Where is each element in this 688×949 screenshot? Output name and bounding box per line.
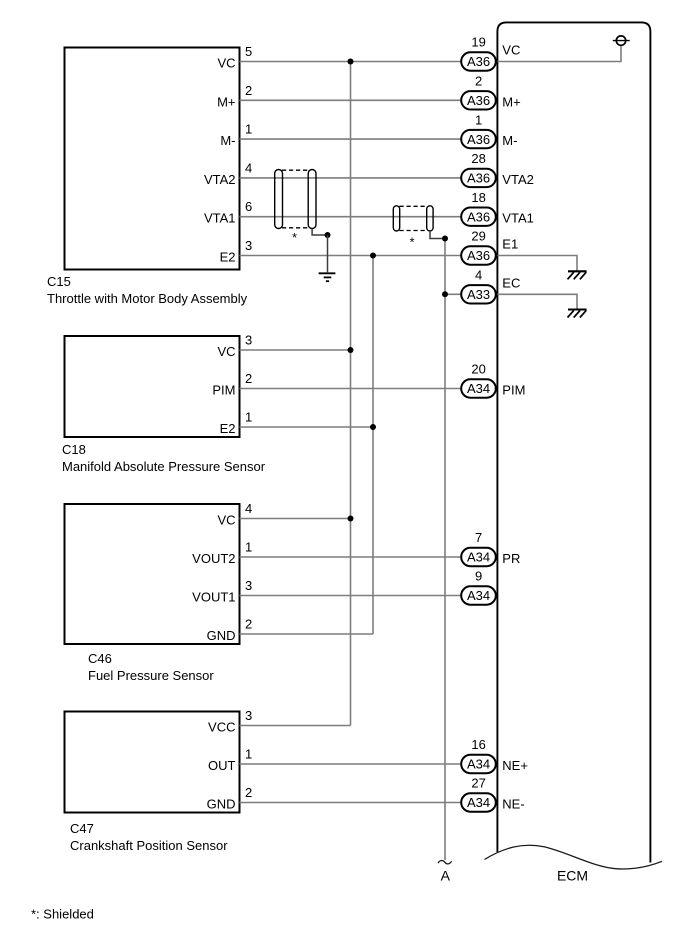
- svg-text:A34: A34: [467, 588, 490, 603]
- svg-text:A34: A34: [467, 550, 490, 565]
- svg-text:EC: EC: [502, 276, 520, 291]
- svg-text:2: 2: [475, 74, 482, 89]
- svg-text:VTA2: VTA2: [204, 172, 236, 187]
- wire break tilde (A net): [438, 861, 452, 864]
- wire VC vertical bus x=350.5: [350, 62, 352, 726]
- svg-text:NE-: NE-: [502, 797, 524, 812]
- svg-text:C18: C18: [62, 442, 86, 457]
- connector terminal A33 pin 4 (EC): [461, 285, 496, 303]
- svg-text:Manifold Absolute Pressure Sen: Manifold Absolute Pressure Sensor: [62, 459, 266, 474]
- shield (VTA1 single) dashed box: [393, 206, 433, 231]
- wire C15 VTA1 to ECM A36-18: [240, 216, 461, 218]
- wire E2/GND vertical bus x=373: [372, 256, 374, 635]
- svg-text:VTA1: VTA1: [502, 211, 534, 226]
- svg-text:2: 2: [245, 371, 252, 386]
- svg-text:5: 5: [245, 44, 252, 59]
- svg-text:A34: A34: [467, 381, 490, 396]
- svg-text:VTA1: VTA1: [204, 211, 236, 226]
- svg-text:VC: VC: [217, 56, 235, 71]
- connector terminal A34 pin 16 (NE+): [461, 755, 496, 773]
- connector terminal A34 pin 20 (PIM): [461, 379, 496, 397]
- svg-text:VTA2: VTA2: [502, 172, 534, 187]
- wire VC inside ECM to terminal circle: [497, 46, 621, 62]
- ground stem from shield 1: [327, 235, 329, 272]
- svg-text:29: 29: [471, 229, 485, 244]
- shield 2 drain wire: [430, 231, 445, 239]
- svg-text:3: 3: [245, 333, 252, 348]
- wire C18 VC branch: [240, 349, 351, 351]
- svg-text:1: 1: [245, 122, 252, 137]
- connector terminal A36 pin 28 (VTA2): [461, 169, 496, 187]
- junction dot VC bus at C46 VC: [348, 516, 354, 522]
- svg-text:C47: C47: [70, 821, 94, 836]
- svg-text:VOUT2: VOUT2: [192, 551, 235, 566]
- svg-text:VOUT1: VOUT1: [192, 590, 235, 605]
- svg-text:18: 18: [471, 190, 485, 205]
- component box C18 Manifold Absolute Pressure Sensor: [65, 336, 240, 437]
- svg-text:A: A: [441, 868, 451, 884]
- wire C46 VC branch: [240, 518, 351, 520]
- wire C46 VOUT1 to ECM A34-9: [240, 595, 461, 597]
- svg-text:A36: A36: [467, 209, 490, 224]
- svg-text:3: 3: [245, 708, 252, 723]
- connector terminal A36 pin 19 (VC): [461, 52, 496, 70]
- svg-text:4: 4: [475, 268, 482, 283]
- junction dot VC bus at C18 VC: [348, 347, 354, 353]
- shield (VTA2/VTA1 pair) dashed box: [275, 170, 316, 229]
- wire EC inside ECM to ground: [497, 294, 577, 308]
- wire C47 VCC branch: [240, 725, 351, 727]
- ECM torn bottom edge (wave): [485, 845, 663, 869]
- svg-text:PIM: PIM: [502, 383, 525, 398]
- wire C15 VC to ECM A36-19: [240, 61, 461, 63]
- svg-text:C46: C46: [88, 651, 112, 666]
- wire A net vertical x=445: [444, 239, 446, 861]
- svg-text:PIM: PIM: [212, 383, 235, 398]
- svg-text:M+: M+: [217, 94, 235, 109]
- svg-text:ECM: ECM: [557, 868, 588, 884]
- svg-text:9: 9: [475, 569, 482, 584]
- svg-text:28: 28: [471, 151, 485, 166]
- svg-text:GND: GND: [207, 628, 236, 643]
- wire C15 VTA2 to ECM A36-28: [240, 177, 461, 179]
- connector terminal A36 pin 2 (M+): [461, 91, 496, 109]
- wire C15 M+ to ECM A36-2: [240, 99, 461, 101]
- connector terminal A34 pin 27 (NE-): [461, 793, 496, 811]
- wire C18 E2 branch: [240, 426, 374, 428]
- svg-text:M+: M+: [502, 94, 520, 109]
- connector terminal A34 pin 7 (PR): [461, 548, 496, 566]
- wire C15 M- to ECM A36-1: [240, 138, 461, 140]
- junction dot shield1/ground: [325, 232, 331, 238]
- svg-text:Crankshaft Position Sensor: Crankshaft Position Sensor: [70, 838, 228, 853]
- chassis ground (E1): [568, 271, 587, 279]
- svg-text:Throttle with Motor Body Assem: Throttle with Motor Body Assembly: [47, 291, 248, 306]
- wire C47 GND to ECM A34-27: [240, 802, 461, 804]
- junction dot A net at EC stub: [442, 291, 448, 297]
- svg-text:2: 2: [245, 785, 252, 800]
- svg-text:3: 3: [245, 578, 252, 593]
- svg-text:E2: E2: [220, 250, 236, 265]
- wire E1 inside ECM to ground: [497, 256, 577, 271]
- svg-text:E1: E1: [502, 237, 518, 252]
- svg-text:VC: VC: [217, 513, 235, 528]
- svg-text:20: 20: [471, 362, 485, 377]
- wire C46 VOUT2 to ECM A34-7: [240, 556, 461, 558]
- shield 1 drain wire: [312, 229, 327, 236]
- svg-text:7: 7: [475, 530, 482, 545]
- svg-text:E2: E2: [220, 421, 236, 436]
- svg-text:2: 2: [245, 83, 252, 98]
- svg-text:A36: A36: [467, 132, 490, 147]
- connector terminal A36 pin 18 (VTA1): [461, 208, 496, 226]
- svg-text:2: 2: [245, 617, 252, 632]
- wire EC stub to ECM A33-4: [445, 293, 461, 295]
- junction dot shield2/A-net: [442, 236, 448, 242]
- svg-text:27: 27: [471, 776, 485, 791]
- svg-text:A36: A36: [467, 54, 490, 69]
- component box C46 Fuel Pressure Sensor: [65, 504, 240, 644]
- svg-text:M-: M-: [502, 133, 517, 148]
- svg-text:A34: A34: [467, 795, 490, 810]
- svg-text:NE+: NE+: [502, 758, 528, 773]
- svg-text:A36: A36: [467, 171, 490, 186]
- svg-text:A36: A36: [467, 93, 490, 108]
- ECM housing outline: [497, 22, 650, 862]
- svg-text:*: Shielded: *: Shielded: [31, 907, 94, 922]
- svg-text:PR: PR: [502, 551, 520, 566]
- svg-text:A36: A36: [467, 248, 490, 263]
- svg-text:OUT: OUT: [208, 758, 236, 773]
- terminal circle (VC): [616, 36, 625, 45]
- chassis ground (EC): [568, 310, 587, 318]
- connector terminal A36 pin 1 (M-): [461, 130, 496, 148]
- wire C46 GND branch: [240, 633, 374, 635]
- component box C47 Crankshaft Position Sensor: [65, 712, 240, 813]
- wire C15 E2 to ECM A36-29 E1: [240, 255, 461, 257]
- svg-text:4: 4: [245, 160, 252, 175]
- svg-text:A34: A34: [467, 757, 490, 772]
- svg-text:Fuel Pressure Sensor: Fuel Pressure Sensor: [88, 668, 214, 683]
- junction dot VC bus at C15 VC wire: [348, 59, 354, 65]
- connector terminal A34 pin 9: [461, 586, 496, 604]
- svg-text:19: 19: [471, 35, 485, 50]
- earth ground (shield drain): [319, 273, 336, 281]
- svg-text:A33: A33: [467, 287, 490, 302]
- svg-text:VC: VC: [502, 43, 520, 58]
- svg-text:16: 16: [471, 737, 485, 752]
- svg-text:1: 1: [475, 112, 482, 127]
- svg-text:GND: GND: [207, 797, 236, 812]
- svg-text:1: 1: [245, 410, 252, 425]
- component box C15 Throttle with Motor Body Assembly: [65, 48, 240, 270]
- svg-text:4: 4: [245, 501, 252, 516]
- junction dot E2 bus at C15 E2 wire: [370, 253, 376, 259]
- junction dot E2 bus at C18 E2: [370, 424, 376, 430]
- svg-text:1: 1: [245, 747, 252, 762]
- svg-text:VC: VC: [217, 344, 235, 359]
- svg-text:1: 1: [245, 540, 252, 555]
- svg-text:6: 6: [245, 199, 252, 214]
- svg-text:*: *: [409, 234, 414, 249]
- svg-text:VCC: VCC: [208, 720, 235, 735]
- connector terminal A36 pin 29 (E1): [461, 246, 496, 264]
- svg-text:3: 3: [245, 238, 252, 253]
- svg-text:C15: C15: [47, 274, 71, 289]
- wire C18 PIM to ECM A34-20: [240, 388, 461, 390]
- svg-text:*: *: [292, 230, 297, 245]
- svg-text:M-: M-: [220, 133, 235, 148]
- wire C47 OUT to ECM A34-16: [240, 763, 461, 765]
